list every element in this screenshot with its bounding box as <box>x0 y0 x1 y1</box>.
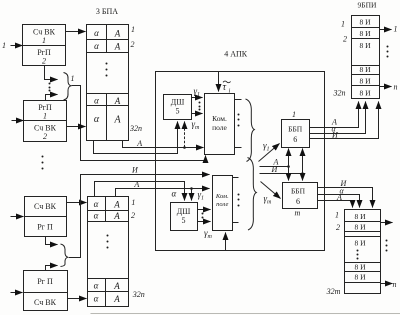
svg-text:5: 5 <box>176 107 180 116</box>
К1 Ком поле <box>205 94 235 155</box>
svg-text:γm: γm <box>204 228 213 240</box>
svg-text:ББП: ББП <box>291 187 306 196</box>
svg-text:1: 1 <box>335 211 339 220</box>
scan artifact bottom <box>91 313 400 315</box>
svg-text:3 БПА: 3 БПА <box>96 7 118 16</box>
svg-text:2: 2 <box>131 40 135 49</box>
svg-text:8 И: 8 И <box>354 212 366 221</box>
dots between γ arrows upper <box>199 102 201 111</box>
block РгП1/СчВК2 (box2) <box>24 101 67 142</box>
А output of ББП1 to table2 <box>310 102 359 128</box>
table2 9БПИ <box>352 16 380 99</box>
svg-text:А: А <box>114 42 121 52</box>
svg-text:А: А <box>113 294 120 304</box>
wire table3 α-col to ДШ5-2 (α line) <box>95 182 185 201</box>
junction dot on A line <box>183 146 186 149</box>
junction dots <box>287 165 290 168</box>
svg-text:А: А <box>113 281 120 291</box>
γ1 arrow ДШ5-1 to К1 <box>192 97 203 99</box>
svg-text:Рг П: Рг П <box>37 223 53 232</box>
svg-text:6: 6 <box>293 135 297 144</box>
svg-text:ДШ: ДШ <box>171 98 185 107</box>
К2 bottom input arrow <box>225 233 227 251</box>
svg-text:32n: 32n <box>132 290 145 299</box>
dots between γ arrows lower <box>202 213 204 219</box>
svg-text:4 АПК: 4 АПК <box>224 50 248 59</box>
svg-text:α: α <box>94 294 99 304</box>
svg-text:А: А <box>136 139 142 148</box>
svg-text:2: 2 <box>43 132 47 141</box>
γm arrow ДШ5-1 to К1 <box>192 113 203 115</box>
wire box2 to table1 row4 <box>67 126 86 128</box>
brace2 <box>61 244 69 267</box>
γ1 arrow ДШ5-2 to К2 <box>198 209 211 211</box>
И output of ББП1 to table2 <box>310 102 379 139</box>
wire brace2 to И line <box>69 175 210 258</box>
junction dot on lower А line <box>190 187 193 190</box>
svg-text:8 И: 8 И <box>354 273 366 282</box>
svg-text:2: 2 <box>42 57 46 66</box>
wire box2 top to brace1 <box>46 95 58 101</box>
svg-text:γ1: γ1 <box>194 86 201 98</box>
table4 row labels <box>326 211 341 297</box>
table4 out arrow n <box>381 280 397 289</box>
svg-text:α: α <box>94 114 100 125</box>
svg-text:1: 1 <box>2 41 6 50</box>
wire box1 to table1 row1 <box>66 31 86 33</box>
svg-text:1: 1 <box>131 25 135 34</box>
К2 Ком поле <box>213 176 233 231</box>
svg-text:1: 1 <box>131 198 135 207</box>
svg-text:γm: γm <box>192 119 201 131</box>
svg-text:8 И: 8 И <box>359 29 371 38</box>
svg-text:1: 1 <box>341 20 345 29</box>
dots right of К2 <box>238 194 240 207</box>
svg-text:32n: 32n <box>333 89 346 98</box>
svg-text:И: И <box>131 166 139 175</box>
svg-text:8 И: 8 И <box>359 89 371 98</box>
svg-text:Сч ВК: Сч ВК <box>34 298 57 307</box>
svg-text:Рг П: Рг П <box>37 277 53 286</box>
svg-text:α: α <box>94 28 99 38</box>
svg-text:А: А <box>114 29 121 39</box>
svg-text:8 И: 8 И <box>354 239 366 248</box>
svg-text:Ком.: Ком. <box>212 114 227 123</box>
svg-text:α: α <box>172 189 177 199</box>
svg-text:6: 6 <box>296 197 300 206</box>
svg-text:1: 1 <box>292 110 296 119</box>
γm arrow ДШ5-2 to К2 <box>198 221 211 223</box>
γ1 diagonal to ББП1 <box>259 144 280 162</box>
table2 row labels <box>333 20 348 98</box>
wire box1 bottom to brace1 <box>45 66 58 80</box>
svg-text:поле: поле <box>212 123 227 132</box>
svg-text:1: 1 <box>43 112 47 121</box>
wire table1 A-col to K1 (A line) <box>123 141 204 148</box>
wire box3 bottom to brace2 <box>46 237 58 245</box>
svg-text:α: α <box>94 41 99 51</box>
dots right of table2 <box>387 46 389 58</box>
svg-text:А: А <box>113 200 120 210</box>
svg-text:ДШ: ДШ <box>177 207 191 216</box>
svg-text:9БПИ: 9БПИ <box>358 1 377 10</box>
ДШ5-1 <box>164 95 192 120</box>
К1 right stubs <box>235 99 242 101</box>
brace1 <box>64 73 72 101</box>
block СчВК1/РгП2 (box1) <box>23 25 66 66</box>
svg-text:поле: поле <box>216 201 228 208</box>
ДШ5-2 <box>171 203 198 231</box>
svg-text:α: α <box>94 281 99 291</box>
svg-text:8 И: 8 И <box>354 263 366 272</box>
svg-text:1: 1 <box>71 74 75 83</box>
svg-text:32m: 32m <box>326 287 341 296</box>
input arrow into box3 <box>11 216 24 218</box>
И output of ББП2 to table4 <box>318 188 373 208</box>
svg-text:ББП: ББП <box>288 125 303 134</box>
ББП2 <box>283 183 318 209</box>
АПК outer box <box>156 72 325 251</box>
И line between ББП <box>260 173 303 175</box>
svg-text:α: α <box>94 199 99 209</box>
dots between brace1 arrows <box>49 83 51 92</box>
wire box4 to table3 row4 <box>68 298 87 300</box>
lower bus brace right of К2 <box>248 158 257 231</box>
svg-text:Ком.: Ком. <box>215 193 229 200</box>
svg-text:τ: τ <box>223 82 227 93</box>
α output of ББП2 to table4 <box>318 195 360 208</box>
svg-text:n: n <box>393 280 397 289</box>
А line between ББП <box>260 166 289 168</box>
input arrow 1 into box1 <box>2 41 23 50</box>
table4 out arrow 1 <box>381 222 393 224</box>
svg-text:8 И: 8 И <box>359 41 371 50</box>
α output of ББП1 to table2 <box>310 102 366 134</box>
svg-text:Сч ВК: Сч ВК <box>34 202 57 211</box>
wire brace1 to K1 bottom <box>72 86 206 161</box>
table1 row labels <box>129 25 142 133</box>
svg-text:α: α <box>94 211 99 221</box>
svg-text:А: А <box>133 180 139 189</box>
svg-text:m: m <box>295 209 301 218</box>
svg-text:γ1: γ1 <box>263 141 270 153</box>
svg-text:А: А <box>113 211 120 221</box>
svg-text:А: А <box>336 193 342 202</box>
γm diagonal to ББП2 <box>261 182 281 199</box>
τi input into К1 <box>219 72 231 95</box>
svg-text:А: А <box>113 115 121 126</box>
dashed tap from A line up to ДШ5-1 <box>184 122 186 148</box>
А output of ББП2 to table4 <box>318 201 353 208</box>
svg-text:1: 1 <box>394 25 398 34</box>
table3 row labels <box>131 198 145 299</box>
table4 bottom-right <box>345 210 381 294</box>
svg-text:32n: 32n <box>129 124 142 133</box>
block СчВК/РгП (box3) <box>25 197 67 237</box>
vertical link1 between ББП boxes <box>288 149 290 181</box>
svg-text:8 И: 8 И <box>354 223 366 232</box>
wire table3 А-col to К2 (А line lower) <box>116 189 210 197</box>
svg-text:2: 2 <box>343 35 347 44</box>
К2 right stubs <box>233 177 239 179</box>
svg-text:8 И: 8 И <box>359 77 371 86</box>
svg-text:5: 5 <box>182 216 186 225</box>
svg-text:А: А <box>114 96 121 106</box>
svg-text:8 И: 8 И <box>359 65 371 74</box>
wire box3 to table3 row1 <box>67 202 87 204</box>
dots right of К1 <box>238 114 240 127</box>
table3 bottom-left <box>88 197 129 307</box>
svg-text:8 И: 8 И <box>359 18 371 27</box>
svg-text:γm: γm <box>264 194 273 206</box>
input arrow into box4 <box>11 292 23 294</box>
tap from lower А line into ДШ5-2 <box>191 189 193 201</box>
table2 out arrow n <box>380 83 398 92</box>
vertical link2 between ББП boxes <box>302 149 304 181</box>
dots between left groups <box>42 156 44 170</box>
block РгП/СчВК (box4) <box>24 271 68 311</box>
dots right of table4 <box>386 240 388 252</box>
input arrow into box2 <box>12 120 24 122</box>
svg-text:α: α <box>94 96 99 106</box>
table1 3БПА <box>87 25 129 141</box>
wire box4 top to brace2 <box>46 266 58 271</box>
upper bus brace right of К1 <box>246 99 255 162</box>
svg-text:2: 2 <box>131 211 135 220</box>
svg-text:2: 2 <box>336 223 340 232</box>
wire table1 α-col to ДШ5-1 <box>94 122 178 154</box>
svg-text:1: 1 <box>42 36 46 45</box>
ББП1 <box>282 120 310 148</box>
svg-text:n: n <box>394 83 398 92</box>
svg-text:γ1: γ1 <box>198 190 205 202</box>
table2 out arrow 1 <box>380 25 398 34</box>
